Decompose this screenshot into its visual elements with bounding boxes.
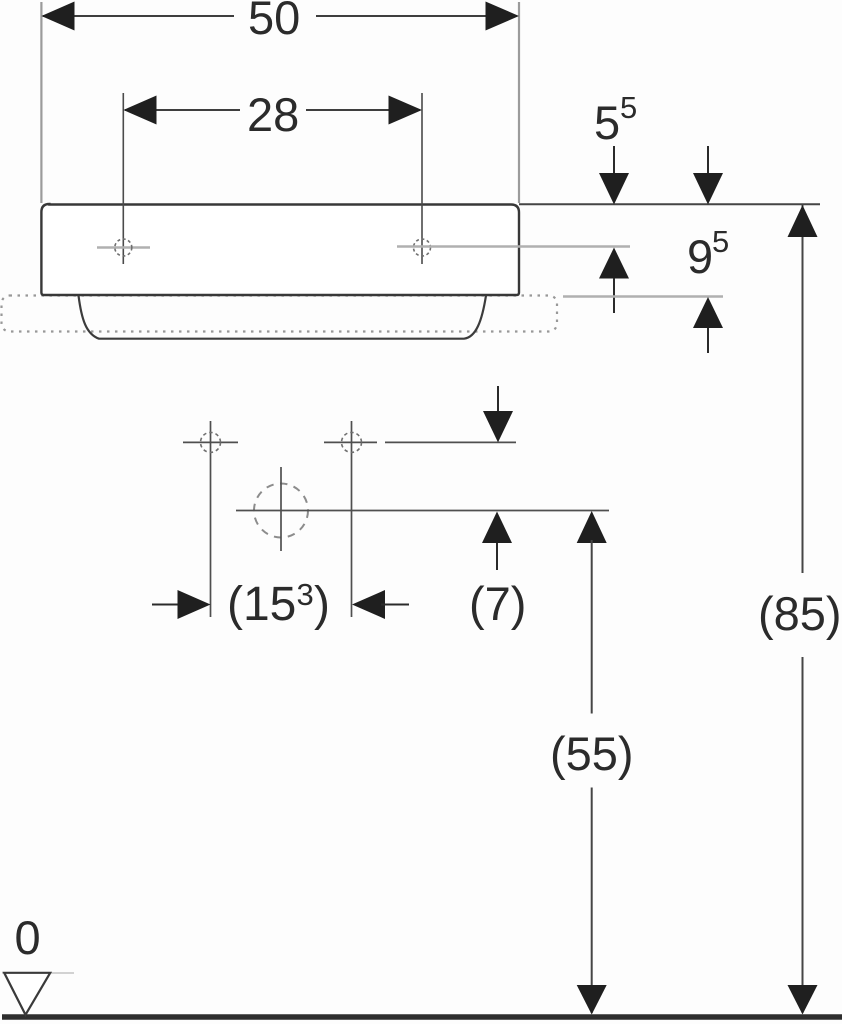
dimension 5|5 (rim to faucet line) — [594, 90, 637, 313]
dimension (85) vertical line — [758, 205, 842, 1015]
faucet hole left (front view) — [97, 239, 150, 256]
svg-text:): ) — [314, 578, 330, 631]
dashed installation outline (siphon cover template) — [2, 296, 558, 332]
extension line right of 50 dim — [518, 2, 520, 203]
svg-text:3: 3 — [297, 577, 314, 612]
svg-text:5: 5 — [594, 96, 620, 149]
datum triangle — [4, 973, 50, 1015]
svg-text:28: 28 — [247, 88, 299, 141]
dimension (55) vertical line — [550, 511, 634, 1015]
rim top reference line — [519, 203, 820, 205]
svg-text:(55): (55) — [550, 727, 634, 780]
svg-text:(85): (85) — [758, 587, 842, 640]
dimension 9|5 (rim to basin bottom) — [563, 146, 729, 353]
svg-text:5: 5 — [712, 224, 729, 259]
svg-text:9: 9 — [687, 230, 713, 283]
washbasin body (front view) — [41, 204, 519, 295]
dimension (7) — [469, 512, 526, 631]
dimension 50 — [41, 0, 519, 44]
faucet centreline reference (grey) — [397, 245, 630, 247]
down arrow onto faucet level line — [483, 386, 513, 442]
faucet level reference line (plan) — [385, 441, 516, 443]
dimension 28 — [123, 88, 422, 264]
svg-text:(15: (15 — [227, 578, 296, 631]
extension line left of 50 dim — [40, 2, 42, 203]
svg-text:(7): (7) — [469, 577, 526, 630]
faucet hole right (front view) — [414, 239, 431, 256]
drain level reference line — [236, 510, 609, 512]
dimension (15|3) — [152, 577, 409, 631]
svg-text:0: 0 — [15, 911, 41, 964]
drain (plan view) — [254, 467, 308, 551]
svg-text:50: 50 — [248, 0, 300, 44]
faucet hole right (plan view) — [324, 421, 377, 617]
bowl bottom profile — [79, 296, 487, 339]
faucet hole left (plan view) — [183, 421, 238, 617]
svg-text:5: 5 — [620, 90, 637, 125]
ground line — [2, 1014, 842, 1020]
datum triangle top edge faint extension — [2, 972, 74, 974]
